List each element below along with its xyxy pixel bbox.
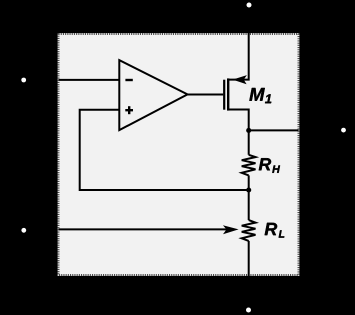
terminal dot left lower (control input)	[21, 228, 26, 233]
control input arrowhead	[223, 225, 239, 234]
dashed enclosure box	[58, 33, 300, 276]
op-amp minus sign	[125, 79, 132, 81]
transistor M1 gate bar	[223, 80, 225, 110]
junction node drain/RH/output	[246, 128, 251, 133]
terminal dot top (VDD)	[247, 3, 252, 8]
transistor M1 channel bar	[227, 78, 229, 110]
op-amp U1	[119, 60, 187, 130]
label M1	[249, 88, 271, 103]
label RH	[259, 158, 280, 173]
resistor RL	[242, 220, 256, 241]
label RL	[265, 223, 285, 238]
wire feedback (plus input to RH/RL node)	[80, 110, 249, 190]
terminal dot left upper (inverting input)	[21, 78, 26, 83]
wire M1 source lead to top	[228, 33, 249, 80]
wire RH bottom lead	[248, 175, 250, 190]
terminal dot right (output)	[341, 128, 346, 133]
terminal dot bottom (ground)	[246, 308, 251, 313]
wire node to RH top	[248, 130, 250, 154]
wire control input with arrow	[59, 228, 228, 230]
resistor RH	[242, 155, 256, 176]
wire RL bottom to box bottom	[248, 241, 250, 276]
wire node to right edge (output)	[249, 129, 299, 131]
wire node to RL top	[248, 190, 250, 220]
wire inverting input	[59, 79, 120, 81]
wire M1 drain lead	[228, 110, 249, 131]
transistor M1 source arrow (PMOS)	[233, 75, 247, 84]
wire op-amp output to gate	[188, 94, 224, 96]
junction node RH/RL/feedback	[246, 187, 251, 192]
op-amp plus sign	[125, 106, 133, 114]
enclosure dotted border	[59, 34, 299, 275]
